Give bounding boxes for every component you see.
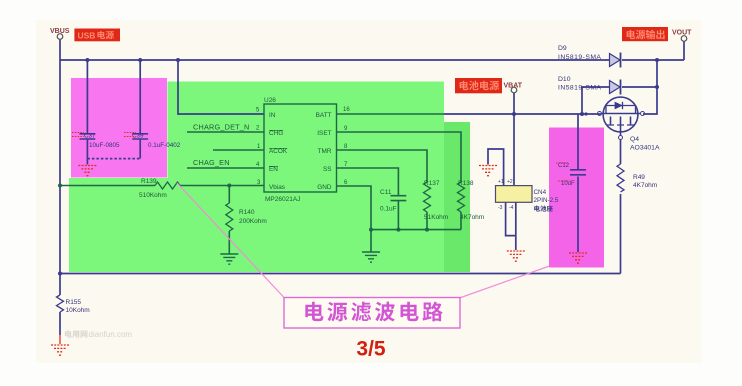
svg-text:Q4: Q4 [630, 136, 639, 143]
svg-text:dianfun.com: dianfun.com [89, 330, 133, 339]
svg-text:R138: R138 [458, 180, 474, 187]
red tag battery power [455, 78, 502, 93]
svg-text:4K7ohm: 4K7ohm [633, 182, 657, 189]
svg-text:IN5819-SMA: IN5819-SMA [558, 54, 601, 61]
wire: GND pin to node [337, 186, 372, 252]
pink highlight box (input filter caps) [71, 78, 167, 178]
wire: C12 riser from bus [577, 114, 579, 169]
wire: VBAT drop through bus to CN4 [513, 93, 515, 186]
wire: ACOK stub [213, 149, 264, 151]
svg-text:0.1uF-0402: 0.1uF-0402 [148, 142, 181, 149]
wire: drop to IN pin [178, 60, 264, 114]
svg-text:ACOK: ACOK [269, 148, 288, 155]
wire: top bus y=60 [60, 59, 610, 61]
ground (red, CN4 bottom) [507, 251, 525, 261]
green highlight region A [168, 82, 445, 273]
svg-text:16: 16 [343, 107, 350, 113]
wire: ISET to R138 [337, 132, 462, 182]
svg-text:-4: -4 [509, 205, 514, 211]
svg-text:BATT: BATT [316, 112, 332, 119]
svg-text:CHARG_DET_N: CHARG_DET_N [193, 123, 250, 132]
svg-text:0.1uF: 0.1uF [380, 206, 397, 213]
ground (red, pink box) [78, 166, 96, 176]
svg-text:10uF: 10uF [561, 181, 575, 187]
svg-text:2PIN-2.5: 2PIN-2.5 [534, 197, 559, 204]
wire: bottom rail [60, 273, 621, 275]
wire: CN4 pin4 to ground [515, 202, 517, 250]
svg-text:USB: USB [78, 30, 96, 40]
label CN4 battery-holder (CJK) [534, 205, 553, 211]
red tag USB power [74, 29, 120, 42]
pin numbers [256, 107, 350, 186]
wire: BATT pin over green [337, 113, 445, 115]
wire: SS to C11 [337, 168, 399, 195]
wire: gnd node line [371, 229, 461, 231]
svg-text:EN: EN [269, 166, 278, 173]
svg-text:C12: C12 [558, 163, 570, 169]
svg-text:R137: R137 [424, 180, 440, 187]
wire: red stem to R155 ground [59, 335, 61, 344]
wire: R140 from Vbias node [228, 186, 230, 204]
wire: drop to C37 [86, 60, 88, 134]
wire: C39 bottom [139, 140, 141, 159]
connector CN4 [496, 186, 533, 203]
wire: TMR to R137 [337, 150, 428, 182]
resistor R137 [424, 182, 431, 212]
wire: D10 anode riser [582, 87, 610, 114]
svg-text:D10: D10 [558, 76, 571, 83]
svg-text:MP26021AJ: MP26021AJ [265, 196, 300, 203]
schematic sheet [36, 20, 701, 363]
wire: R49 bottom to rail [620, 194, 622, 274]
svg-text:10Kohm: 10Kohm [66, 307, 90, 314]
ground (red, C12) [569, 253, 587, 263]
svg-text:-3: -3 [498, 205, 503, 211]
callout line left [177, 183, 285, 298]
wire: left rail VBUS down [59, 40, 61, 296]
wire: EN net [187, 167, 264, 169]
op-amp/charger IC U26 box [264, 104, 337, 192]
svg-text:C11: C11 [380, 189, 392, 196]
svg-text:R155: R155 [66, 299, 82, 306]
diode D10 [610, 80, 621, 95]
svg-text:AO3401A: AO3401A [630, 145, 660, 152]
red select marks on caps [72, 133, 572, 182]
svg-text:R49: R49 [633, 174, 645, 181]
svg-text:VBUS: VBUS [50, 28, 70, 35]
capacitor C39 [132, 134, 148, 139]
wire: left rail below R155 to ground [59, 312, 61, 335]
resistor R138 [458, 182, 465, 212]
svg-text:C37: C37 [84, 133, 96, 140]
svg-text:CHAG_EN: CHAG_EN [193, 158, 230, 167]
svg-text:TMR: TMR [318, 148, 332, 155]
wire: CHG net [187, 131, 264, 133]
node VBUS port [57, 34, 63, 40]
wires inside green region (teal tint) [60, 114, 465, 254]
capacitor C37 [80, 134, 96, 139]
wire: CN4 pin3 down [506, 202, 516, 235]
ground (green, R140) [220, 254, 238, 264]
resistor R155 [57, 295, 64, 312]
svg-text:+2: +2 [507, 179, 513, 185]
wire: right riser to Q4 drain [643, 60, 657, 114]
svg-text:VOUT: VOUT [672, 30, 692, 37]
wire: BATT bus to Q4 [444, 113, 602, 115]
callout line right [460, 266, 550, 298]
capacitor C12 [570, 170, 586, 175]
svg-text:IN5819-SMA: IN5819-SMA [558, 85, 601, 92]
wire: drop to C39 [139, 60, 141, 134]
ground (red, R155) [51, 345, 69, 355]
svg-text:510Kohm: 510Kohm [139, 192, 167, 199]
wire: Vbias net with R139 [60, 185, 155, 187]
diode D9 [610, 53, 621, 68]
green highlight region A lower-left extension [69, 178, 169, 272]
svg-text:R140: R140 [239, 209, 255, 216]
CN4 pin marks [498, 179, 514, 211]
green highlight region B [333, 122, 470, 272]
svg-text:Vbias: Vbias [269, 184, 285, 191]
red tag power output [622, 27, 668, 41]
svg-text:IN: IN [269, 112, 276, 119]
ground (red, CN4 pin1) [479, 166, 497, 176]
wire: Q4 gate down to R49 [620, 140, 622, 165]
wire: CN4 pin1 to ground [488, 149, 504, 186]
transistor Q4 (P-MOSFET in circle) [598, 97, 645, 139]
svg-text:R139: R139 [141, 178, 157, 185]
svg-text:51Kohm: 51Kohm [424, 214, 448, 221]
resistor R139 [155, 182, 180, 189]
svg-text:D9: D9 [558, 45, 567, 52]
svg-text:4K7ohm: 4K7ohm [460, 214, 484, 221]
svg-text:+1: +1 [498, 179, 504, 185]
svg-text:10uF-0805: 10uF-0805 [89, 142, 120, 149]
svg-text:ISET: ISET [317, 130, 331, 137]
wire: VOUT drop [683, 42, 685, 61]
node VOUT port [681, 36, 687, 42]
svg-text:U26: U26 [264, 97, 276, 104]
capacitor C11 [391, 196, 407, 201]
title text 电源滤波电路 [305, 302, 442, 322]
svg-text:CHG: CHG [269, 130, 283, 137]
svg-text:CN4: CN4 [534, 189, 547, 196]
watermark [65, 330, 88, 338]
svg-text:GND: GND [317, 184, 332, 191]
ground (green, IC GND) [362, 252, 380, 262]
node VBAT port [511, 87, 517, 93]
wire: D10 cathode to right riser [622, 86, 657, 88]
svg-text:VBAT: VBAT [504, 83, 523, 90]
svg-text:200Kohm: 200Kohm [239, 218, 267, 225]
svg-text:3/5: 3/5 [356, 338, 386, 361]
wire: C37 bottom to ground [86, 140, 88, 165]
wire: C12 bottom to ground [577, 177, 579, 253]
wire: dashed join of cap bottoms [87, 158, 140, 160]
resistor R49 [617, 164, 624, 192]
wire: D9 cathode to VOUT corner [622, 59, 684, 61]
node dots on top bus [85, 58, 89, 62]
magenta strip (battery filter cap) [549, 128, 604, 268]
svg-text:SS: SS [323, 166, 332, 173]
title box 电源滤波电路 [284, 298, 460, 329]
resistor R140 [226, 203, 233, 231]
